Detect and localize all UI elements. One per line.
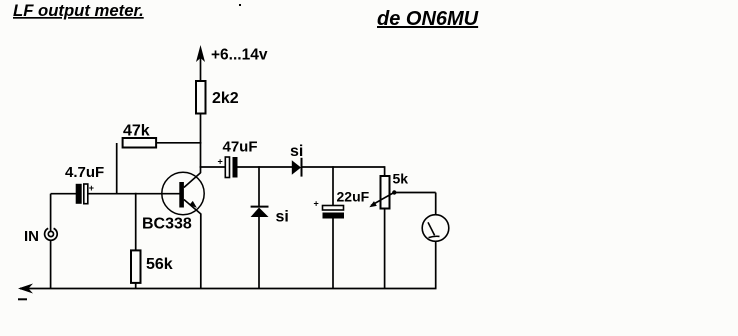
svg-text:si: si	[290, 143, 303, 160]
svg-text:si: si	[276, 209, 289, 226]
svg-text:4.7uF: 4.7uF	[65, 164, 104, 181]
svg-text:+: +	[218, 157, 223, 167]
svg-text:+: +	[314, 199, 319, 209]
svg-text:22uF: 22uF	[337, 189, 370, 205]
svg-text:+6...14v: +6...14v	[211, 47, 268, 64]
svg-text:47k: 47k	[123, 123, 150, 140]
svg-text:IN: IN	[24, 228, 39, 245]
svg-text:de ON6MU: de ON6MU	[377, 8, 479, 30]
svg-text:47uF: 47uF	[223, 139, 258, 156]
svg-text:+: +	[89, 183, 94, 193]
svg-text:2k2: 2k2	[212, 90, 239, 107]
svg-text:5k: 5k	[393, 171, 409, 187]
svg-text:56k: 56k	[146, 256, 173, 273]
svg-text:BC338: BC338	[142, 216, 192, 233]
svg-text:LF output meter.: LF output meter.	[13, 1, 144, 20]
